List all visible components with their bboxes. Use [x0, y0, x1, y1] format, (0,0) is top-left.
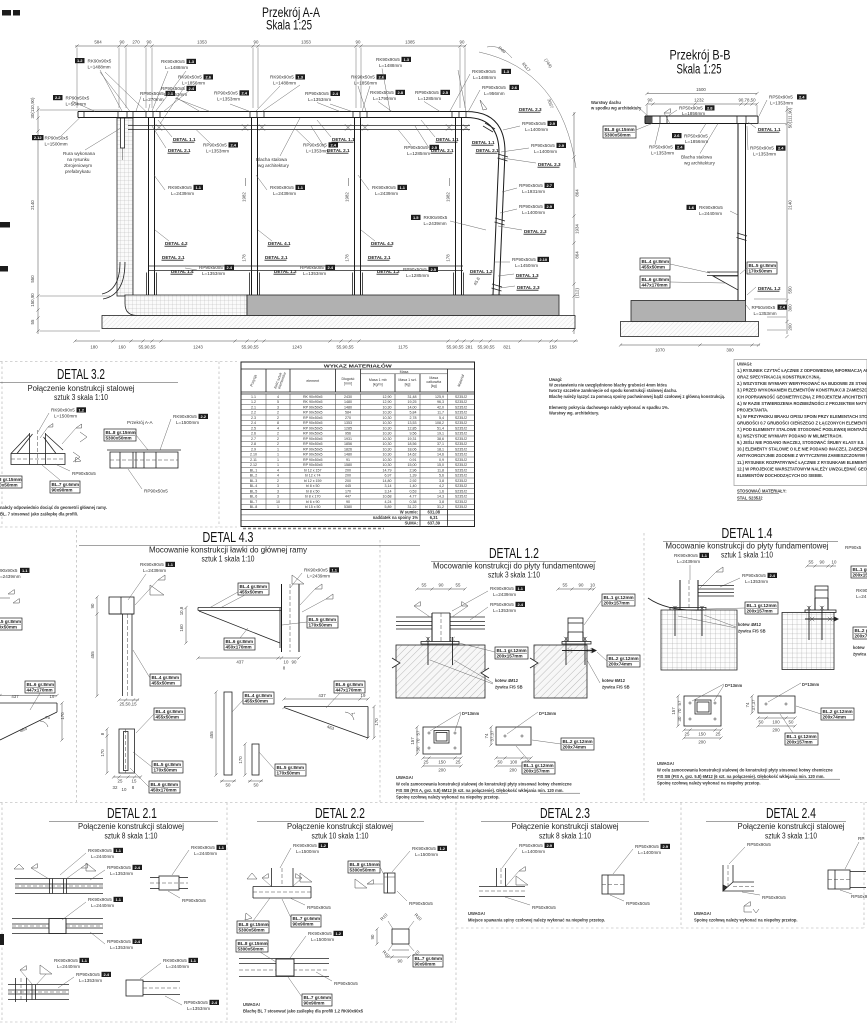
svg-text:2: 2: [277, 411, 279, 415]
concrete prefab column: [117, 118, 133, 296]
svg-text:L=1353mm: L=1353mm: [651, 151, 674, 156]
svg-text:1,40: 1,40: [410, 484, 417, 488]
d14 plan right: [758, 696, 795, 713]
d22 fig2: [384, 873, 395, 893]
d21 fig3 rail: [12, 919, 103, 934]
svg-text:55: 55: [30, 319, 35, 324]
svg-text:1480: 1480: [344, 405, 352, 409]
radius annotation arc: [479, 52, 576, 168]
svg-text:3,14: 3,14: [385, 489, 392, 493]
svg-text:RK90x90x5: RK90x90x5: [270, 185, 294, 190]
svg-text:S235J2: S235J2: [455, 479, 467, 483]
svg-text:125,9: 125,9: [435, 395, 444, 399]
d14 uwaga: [657, 761, 840, 786]
svg-text:RP90x50x5: RP90x50x5: [482, 85, 506, 90]
svg-text:RP 90x50x5: RP 90x50x5: [303, 405, 323, 409]
DETAL 2.2 title: [257, 806, 424, 841]
svg-text:10.) ELEMENTY STALOWE O ILE NI: 10.) ELEMENTY STALOWE O ILE NIE PODANO I…: [737, 447, 867, 452]
svg-text:sztuk 3 skala 1:10: sztuk 3 skala 1:10: [488, 570, 540, 580]
svg-text:Blachę należy łączyć za pomocą: Blachę należy łączyć za pomocą spoiny pa…: [549, 394, 725, 399]
svg-text:455: 455: [209, 731, 214, 739]
svg-text:RK90x90x5: RK90x90x5: [168, 185, 192, 190]
svg-text:L=1400mm: L=1400mm: [534, 149, 557, 154]
svg-text:BL.6 gr.8mm: BL.6 gr.8mm: [336, 682, 364, 687]
svg-text:2140: 2140: [30, 200, 35, 210]
svg-text:200x74mm: 200x74mm: [563, 745, 587, 750]
svg-text:DETAL 2.3: DETAL 2.3: [538, 162, 561, 167]
svg-text:14,62: 14,62: [408, 453, 417, 457]
svg-text:RP90x50x5: RP90x50x5: [512, 257, 536, 262]
svg-text:1.3: 1.3: [403, 57, 409, 62]
svg-text:L=2439mm: L=2439mm: [307, 574, 330, 579]
svg-text:RK90x90x5: RK90x90x5: [376, 57, 400, 62]
svg-text:2.4: 2.4: [677, 145, 683, 150]
svg-text:2.4: 2.4: [517, 602, 523, 607]
svg-text:2.8: 2.8: [707, 106, 713, 111]
svg-text:L=1353mm: L=1353mm: [217, 97, 240, 102]
svg-text:25,50,15: 25,50,15: [119, 702, 137, 707]
svg-text:2,78: 2,78: [410, 416, 417, 420]
svg-text:Masa 1 mb: Masa 1 mb: [369, 378, 387, 382]
svg-text:18,1: 18,1: [437, 447, 444, 451]
svg-text:UWAGA!: UWAGA!: [694, 911, 711, 916]
svg-text:2.5: 2.5: [430, 267, 436, 272]
d43 fig5 BL6: [326, 681, 365, 708]
panel borders: [0, 362, 867, 1023]
svg-text:5: 5: [277, 400, 279, 404]
svg-text:L=1500mm: L=1500mm: [176, 420, 199, 425]
svg-text:70: 70: [416, 738, 421, 743]
svg-text:96,3: 96,3: [437, 400, 444, 404]
svg-text:2.4: 2.4: [769, 573, 775, 578]
svg-text:RP50x90x5: RP50x90x5: [679, 106, 703, 111]
d22 fig3 BL7: [413, 955, 443, 967]
svg-text:2140: 2140: [788, 200, 793, 210]
detal 2.3 b: [502, 158, 561, 167]
svg-text:sztuk 3 skala 1:10: sztuk 3 skala 1:10: [765, 831, 817, 841]
svg-text:L=1400mm: L=1400mm: [525, 127, 548, 132]
svg-text:170x50mm: 170x50mm: [749, 269, 773, 274]
svg-text:wg architektury: wg architektury: [258, 163, 290, 168]
svg-text:RP90x50x5: RP90x50x5: [522, 121, 546, 126]
svg-text:L=1488mm: L=1488mm: [473, 75, 496, 80]
d24 fig1 label1: [729, 842, 771, 864]
detal 1.1 2.1 near col4: [472, 140, 499, 153]
svg-text:90,78,50: 90,78,50: [738, 98, 756, 103]
svg-text:10,30: 10,30: [383, 426, 392, 430]
svg-text:BL.8 gr.15mm: BL.8 gr.15mm: [106, 430, 136, 435]
svg-text:2.) WSZYSTKIE WYMIARY WERYFIKO: 2.) WSZYSTKIE WYMIARY WERYFIKOWAĆ NA BUD…: [737, 381, 867, 386]
svg-text:2.6: 2.6: [511, 85, 517, 90]
svg-text:BL.4 gr.8mm: BL.4 gr.8mm: [240, 584, 268, 589]
svg-text:90: 90: [439, 583, 444, 588]
svg-text:DETAL 4.3: DETAL 4.3: [371, 241, 394, 246]
svg-text:2: 2: [277, 437, 279, 441]
svg-text:L=2440mm: L=2440mm: [699, 211, 722, 216]
svg-text:DETAL 2.1: DETAL 2.1: [162, 255, 185, 260]
svg-text:W zestawieniu nie uwzględniono: W zestawieniu nie uwzględniono blachy gr…: [549, 383, 668, 388]
svg-text:Spoinę czołową należy wykonać: Spoinę czołową należy wykonać na niepełn…: [396, 795, 500, 800]
svg-text:S235J2: S235J2: [455, 437, 467, 441]
svg-text:14,80: 14,80: [383, 479, 392, 483]
d14 BL2 plan box: [796, 706, 854, 720]
svg-text:2.4: 2.4: [134, 865, 140, 870]
svg-text:821: 821: [503, 345, 511, 350]
svg-text:L=1353mm: L=1353mm: [110, 871, 133, 876]
svg-text:RK90x90x5: RK90x90x5: [270, 75, 294, 80]
svg-text:50(111,90): 50(111,90): [788, 107, 793, 128]
dimension bottom B-B: [619, 343, 760, 352]
svg-text:1353: 1353: [301, 40, 311, 45]
svg-text:170x50mm: 170x50mm: [277, 771, 301, 776]
label RK90x90x5 right: [376, 57, 411, 111]
svg-text:L=2440mm: L=2440mm: [91, 903, 114, 908]
svg-text:200x157mm: 200x157mm: [604, 601, 630, 606]
svg-text:Długość: Długość: [342, 377, 355, 381]
d14 right edge labels: [845, 545, 867, 657]
svg-text:2: 2: [277, 479, 279, 483]
svg-text:L=2439mm: L=2439mm: [143, 568, 166, 573]
svg-text:2.4: 2.4: [799, 95, 805, 100]
svg-text:10: 10: [590, 583, 595, 588]
label curve rp4: [500, 204, 554, 215]
d32 section bar: [107, 450, 181, 468]
svg-text:2.5: 2.5: [442, 90, 448, 95]
svg-text:55,90,55: 55,90,55: [241, 345, 259, 350]
svg-text:1.1: 1.1: [331, 568, 337, 573]
label bottom rail 1: [185, 265, 234, 276]
svg-text:1: 1: [277, 453, 279, 457]
label RP90x50x5 2.4 L=1353mm b: [214, 90, 250, 111]
svg-text:5.) W PRZYPADKU BRAKU OPISU SP: 5.) W PRZYPADKU BRAKU OPISU SPOIN PRZY E…: [737, 414, 867, 419]
svg-text:S235J2: S235J2: [455, 421, 467, 425]
svg-text:DETAL 1.1: DETAL 1.1: [436, 137, 459, 142]
svg-text:RP90x50x5: RP90x50x5: [107, 865, 131, 870]
svg-text:1385: 1385: [405, 40, 415, 45]
svg-text:90x90mm: 90x90mm: [304, 1001, 325, 1006]
curve labels right: [519, 107, 542, 112]
svg-text:5300x50mm: 5300x50mm: [0, 483, 18, 488]
svg-text:25: 25: [685, 732, 690, 737]
d23 fig1 flag: [506, 867, 528, 887]
svg-text:RP90x50x5: RP90x50x5: [303, 143, 327, 148]
svg-text:DETAL 2.3: DETAL 2.3: [524, 229, 547, 234]
label R40: [487, 45, 554, 69]
svg-text:7°: 7°: [351, 712, 355, 717]
B-B labels right: [759, 94, 807, 116]
label RK90x90x5 1.3 L=1488mm: [152, 59, 196, 111]
svg-text:L=1500mm: L=1500mm: [311, 937, 334, 942]
svg-text:RP50x90x5: RP50x90x5: [519, 843, 543, 848]
svg-text:8.) WSZYSTKIE WYMIARY PODANO W: 8.) WSZYSTKIE WYMIARY PODANO W MILIMETRA…: [737, 434, 843, 439]
svg-text:Blachę BL 7 stosować jako: Blachę BL 7 stosować jako zaślepkę dla p…: [243, 1009, 364, 1014]
svg-text:14,6: 14,6: [437, 453, 444, 457]
d14 BL1 box: [707, 602, 778, 614]
svg-text:Połączenie konstrukcji stalowe: Połączenie konstrukcji stalowej: [738, 821, 845, 831]
svg-text:455: 455: [90, 651, 95, 659]
svg-text:10,30: 10,30: [383, 463, 392, 467]
svg-text:L=1353mm: L=1353mm: [202, 271, 225, 276]
bottom rail: [149, 266, 464, 271]
svg-text:RP90x50x5: RP90x50x5: [214, 91, 238, 96]
svg-text:RP 90x50x5: RP 90x50x5: [303, 426, 323, 430]
svg-text:455x50mm: 455x50mm: [245, 699, 269, 704]
svg-text:270: 270: [132, 40, 140, 45]
d14 label rk: [674, 553, 709, 580]
svg-text:RP90x50x5: RP90x50x5: [76, 972, 100, 977]
svg-text:10,30: 10,30: [383, 405, 392, 409]
svg-text:4: 4: [277, 426, 279, 430]
svg-text:38,6: 38,6: [437, 437, 444, 441]
detal 1.2 curve bottom: [470, 269, 493, 286]
d12 dim top right: [556, 583, 595, 591]
svg-text:150,90: 150,90: [30, 293, 35, 307]
d43 fig4 bars: [224, 692, 259, 775]
svg-text:157: 157: [671, 707, 676, 715]
svg-text:UWAGA!: UWAGA!: [657, 761, 674, 766]
svg-text:10,30: 10,30: [383, 411, 392, 415]
svg-text:RP90x50x5: RP90x50x5: [140, 91, 164, 96]
svg-text:RK90x90x5: RK90x90x5: [161, 59, 185, 64]
detail labels at x=170: [152, 120, 196, 153]
svg-text:2.9: 2.9: [662, 844, 668, 849]
svg-text:2.5: 2.5: [251, 426, 256, 430]
svg-text:BL.4: BL.4: [250, 484, 257, 488]
svg-text:170x50mm: 170x50mm: [154, 768, 178, 773]
svg-text:1.3: 1.3: [188, 59, 194, 64]
svg-text:Połączenie konstrukcji stalowe: Połączenie konstrukcji stalowej: [512, 821, 619, 831]
svg-text:178: 178: [446, 254, 451, 262]
d22 fig1 tee: [253, 868, 311, 898]
d23 fig2 label rp: [610, 895, 650, 906]
svg-text:170: 170: [345, 489, 351, 493]
d14 concrete right: [782, 613, 834, 670]
B-B bracket: [707, 272, 738, 290]
svg-text:37,1: 37,1: [437, 442, 444, 446]
svg-text:L=2439mm: L=2439mm: [677, 559, 700, 564]
DETAL 1.2 title: [431, 546, 596, 580]
section A-A title: [262, 5, 320, 33]
svg-text:270: 270: [345, 416, 351, 420]
interior dims 1982: [242, 178, 451, 262]
DETAL 3.2 title: [0, 367, 178, 402]
svg-text:RP90x5: RP90x5: [845, 545, 862, 550]
label bottom rail 3: [403, 267, 438, 278]
svg-text:BL.4 gr.8mm: BL.4 gr.8mm: [642, 259, 670, 264]
d14 plan left: [684, 696, 721, 726]
d21 fig1 rail: [15, 879, 103, 894]
d12 uwaga text: [396, 775, 580, 800]
svg-text:5,84: 5,84: [410, 411, 417, 415]
d14 plan left D13: [692, 683, 743, 701]
svg-text:3,14: 3,14: [385, 484, 392, 488]
svg-text:180: 180: [90, 345, 98, 350]
svg-text:1982: 1982: [446, 192, 451, 202]
d12 column left: [432, 613, 450, 642]
d12 baseplate left: [421, 642, 459, 645]
svg-text:GRUBOŚCI 0.7 GRUBOŚCI CIEŃSZEG: GRUBOŚCI 0.7 GRUBOŚCI CIEŃSZEGO Z ŁĄCZON…: [737, 420, 867, 425]
curved pipe at column base: [102, 262, 125, 299]
svg-text:DETAL 1.2: DETAL 1.2: [758, 286, 781, 291]
svg-text:1: 1: [277, 505, 279, 509]
svg-text:2.4: 2.4: [779, 305, 785, 310]
svg-text:BL.6 gr.8mm: BL.6 gr.8mm: [226, 639, 254, 644]
svg-text:2.12: 2.12: [34, 135, 43, 140]
svg-text:2.8: 2.8: [251, 442, 256, 446]
svg-text:L=1488mm: L=1488mm: [165, 65, 188, 70]
svg-text:L=1450mm: L=1450mm: [515, 263, 538, 268]
d24 fig1 label2: [742, 892, 786, 900]
d43 fig1 BL4: [133, 650, 181, 686]
svg-text:Przekrój A-A: Przekrój A-A: [127, 420, 153, 425]
svg-text:bl 12 x 157: bl 12 x 157: [304, 468, 322, 472]
svg-text:437: 437: [318, 693, 326, 698]
svg-text:(112): (112): [575, 288, 580, 298]
d32 label rp2: [128, 469, 168, 494]
svg-text:L=2439mm: L=2439mm: [375, 191, 398, 196]
svg-text:RP90x50x5: RP90x50x5: [626, 901, 650, 906]
d22 fig1 label rp: [290, 898, 331, 910]
d21 fig4 label rp: [58, 972, 111, 988]
svg-text:70: 70: [677, 708, 682, 713]
svg-text:2.4: 2.4: [330, 143, 336, 148]
d12 BL1 box plan: [516, 746, 555, 774]
svg-text:BL.5 gr.8mm: BL.5 gr.8mm: [309, 617, 337, 622]
svg-text:L=1500mm: L=1500mm: [296, 849, 319, 854]
d12 right cut labels: [584, 594, 640, 690]
svg-text:1.1: 1.1: [251, 395, 256, 399]
svg-text:4,24: 4,24: [385, 500, 392, 504]
svg-text:1.1: 1.1: [195, 185, 201, 190]
d21 fig1 label rp: [90, 865, 142, 880]
svg-text:1856: 1856: [344, 442, 352, 446]
label RP90x50x5 2.3 L=270mm: [136, 91, 175, 111]
svg-text:42,0: 42,0: [437, 405, 444, 409]
svg-text:RK90x90x5: RK90x90x5: [372, 185, 396, 190]
svg-text:1.) RYSUNEK CZYTAĆ ŁĄCZNIE Z O: 1.) RYSUNEK CZYTAĆ ŁĄCZNIE Z ODPOWIEDNIĄ…: [737, 368, 867, 373]
svg-text:żywica FIS SB: żywica FIS SB: [738, 629, 766, 634]
svg-text:DETAL 1.4: DETAL 1.4: [171, 269, 194, 274]
d43 fig1 label rk: [128, 562, 175, 600]
svg-text:RK90x90x5: RK90x90x5: [173, 414, 197, 419]
svg-text:200x157mm: 200x157mm: [787, 740, 813, 745]
svg-text:bl 15 x 50: bl 15 x 50: [305, 505, 321, 509]
svg-text:14,3: 14,3: [437, 495, 444, 499]
svg-text:L=1353mm: L=1353mm: [770, 101, 793, 106]
svg-text:10,30: 10,30: [383, 416, 392, 420]
svg-text:UWAGA!: UWAGA!: [396, 775, 413, 780]
d21 fig4 label rk: [54, 958, 89, 969]
svg-text:L=1353mm: L=1353mm: [306, 149, 329, 154]
svg-text:300: 300: [726, 348, 734, 353]
svg-text:w spodku wg architektury: w spodku wg architektury: [590, 106, 642, 111]
svg-text:447x170mm: 447x170mm: [642, 283, 668, 288]
svg-text:1.5: 1.5: [413, 215, 419, 220]
B-B roof beam: [645, 116, 758, 124]
d24 fig1 corner: [723, 865, 754, 891]
svg-text:19: 19: [50, 694, 55, 699]
strip triangle figure: [0, 694, 65, 742]
svg-text:5300x50mm: 5300x50mm: [350, 868, 376, 873]
svg-text:bl 12 x 74: bl 12 x 74: [305, 474, 321, 478]
svg-text:ANTYKOROZYJNIE ZGODNIE Z WYTYC: ANTYKOROZYJNIE ZGODNIE Z WYTYCZNYMI ZAMI…: [737, 453, 867, 458]
svg-text:RP 90x50x5: RP 90x50x5: [303, 437, 323, 441]
svg-text:1,6: 1,6: [439, 489, 444, 493]
d12 anchors right: [562, 637, 596, 665]
svg-text:BL.2 gr.12mm: BL.2 gr.12mm: [609, 656, 639, 661]
d43 fig2 BL6: [130, 768, 180, 793]
svg-text:2.6: 2.6: [251, 432, 256, 436]
svg-text:DETAL 2.1: DETAL 2.1: [265, 255, 288, 260]
d14 anchors: [673, 606, 704, 636]
svg-text:445: 445: [345, 484, 351, 488]
svg-text:2: 2: [277, 442, 279, 446]
DETAL 2.4 title: [706, 806, 846, 841]
svg-text:437: 437: [236, 660, 244, 665]
svg-text:bl 8 x 170: bl 8 x 170: [305, 495, 321, 499]
svg-text:1.1: 1.1: [22, 568, 28, 573]
svg-text:RK90x90x5: RK90x90x5: [674, 553, 698, 558]
svg-text:RK90: RK90: [856, 588, 867, 593]
svg-text:30(110,90): 30(110,90): [30, 97, 35, 118]
svg-text:1070: 1070: [655, 348, 665, 353]
label BL.6 B-B: [640, 276, 725, 288]
svg-text:1: 1: [277, 447, 279, 451]
d23 fig1: [479, 868, 525, 897]
svg-text:RP 90x50x5: RP 90x50x5: [303, 458, 323, 462]
svg-text:RP90x50x5: RP90x50x5: [742, 573, 766, 578]
svg-text:bl 12 x 159: bl 12 x 159: [304, 479, 322, 483]
svg-text:1.1: 1.1: [190, 958, 196, 963]
svg-text:L=270mm: L=270mm: [143, 97, 164, 102]
svg-text:2.4: 2.4: [211, 1000, 217, 1005]
d32 bottom note: [0, 505, 107, 517]
svg-text:RK90x90x5: RK90x90x5: [490, 586, 514, 591]
d12 plan right: [496, 727, 531, 745]
svg-text:1: 1: [277, 458, 279, 462]
d43 fig3 bracket: [198, 584, 299, 652]
svg-text:L=1353mm: L=1353mm: [745, 579, 768, 584]
svg-text:DETAL 2.4: DETAL 2.4: [766, 806, 816, 822]
svg-text:BL.5 gr.8mm: BL.5 gr.8mm: [749, 263, 777, 268]
svg-text:100: 100: [772, 720, 780, 725]
svg-text:DETAL 3.2: DETAL 3.2: [57, 367, 105, 383]
svg-text:90: 90: [90, 603, 95, 608]
svg-text:8: 8: [277, 421, 279, 425]
svg-text:RP90x50x5: RP90x50x5: [184, 1000, 208, 1005]
svg-text:bl 8 x 50: bl 8 x 50: [306, 484, 320, 488]
edge fragments top-left: [0, 10, 20, 272]
svg-text:Warstwy wg. architektury.: Warstwy wg. architektury.: [549, 411, 599, 416]
svg-text:2.9: 2.9: [251, 447, 256, 451]
label curve rp3: [502, 183, 554, 194]
svg-text:BL.7 gr.6mm: BL.7 gr.6mm: [52, 482, 80, 487]
svg-text:BL.8 gr.15mm: BL.8 gr.15mm: [238, 941, 268, 946]
svg-text:864: 864: [575, 251, 580, 259]
svg-text:5300x50mm: 5300x50mm: [106, 436, 132, 441]
svg-text:30: 30: [416, 746, 421, 751]
svg-text:1243: 1243: [292, 345, 302, 350]
svg-text:5,4: 5,4: [439, 416, 444, 420]
svg-text:12,90: 12,90: [383, 400, 392, 404]
d12 concrete left: [392, 645, 489, 698]
dimension chain right A-A: [572, 112, 579, 334]
note rura wykonana: [63, 128, 121, 174]
svg-text:RP90x50x5: RP90x50x5: [203, 143, 227, 148]
svg-text:RP: RP: [858, 836, 864, 841]
strip flags: [0, 590, 19, 604]
label RK90x90x5 curve top: [450, 69, 511, 111]
